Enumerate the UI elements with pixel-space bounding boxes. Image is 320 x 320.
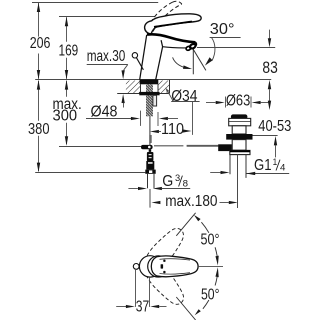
drain neck	[232, 126, 246, 134]
svg-text:50°: 50°	[201, 287, 220, 304]
svg-text:G: G	[162, 173, 173, 190]
deck cross-section hatching left of faucet	[126, 81, 140, 94]
wire: vertical line below aerator (30 deg reference)	[192, 49, 194, 74]
dimension 206	[38, 3, 40, 79]
svg-text:300: 300	[53, 107, 78, 124]
supply centerline	[149, 189, 151, 208]
supply thread lines	[147, 174, 149, 188]
svg-text:Ø63: Ø63	[226, 93, 250, 110]
wire: deck top reference line	[35, 79, 271, 81]
svg-text:max.30: max.30	[87, 48, 126, 65]
plan knob	[133, 264, 139, 270]
svg-text:380: 380	[28, 121, 50, 138]
dimension 110	[150, 130, 159, 133]
svg-text:30°: 30°	[210, 21, 235, 38]
svg-text:83: 83	[262, 59, 277, 77]
rotation arrow under spout	[173, 57, 186, 67]
fixing block right of shank	[153, 95, 157, 106]
dashed lever rotated down 50	[147, 264, 190, 309]
drain body	[232, 140, 246, 151]
base plate	[140, 79, 159, 84]
body left edge	[140, 35, 147, 80]
wire: deck hole right wall	[157, 84, 159, 93]
pop-up knob	[132, 53, 137, 58]
aerator rings	[195, 42, 196, 45]
dimension max.300	[66, 81, 68, 145]
dashed lever raised position	[148, 1, 182, 31]
wire: deck hole left wall	[140, 84, 142, 93]
tailpipe centerline down to max.180	[237, 155, 239, 208]
wire: deck section right edge	[169, 80, 171, 94]
wire: top reference line (spout max height 206)	[32, 2, 158, 4]
pop-up rod horizontal	[154, 145, 183, 147]
drain bottom cap	[230, 150, 250, 154]
cartridge cap circle	[148, 256, 169, 277]
rod-to-drain joint	[141, 145, 153, 149]
svg-text:Ø48: Ø48	[91, 104, 118, 121]
wire: reference line 169 (lever height)	[59, 16, 155, 18]
spout underside	[163, 47, 187, 48]
dimension 83	[269, 30, 271, 39]
flexible hose	[147, 152, 154, 161]
lever (solid)	[145, 14, 202, 34]
pop-up rod upper	[137, 58, 144, 70]
50 degree arcs lower	[203, 300, 209, 309]
label G3/8 with dimension arrows	[128, 188, 138, 190]
svg-text:Ø34: Ø34	[171, 88, 198, 105]
dimension 169	[66, 17, 68, 79]
dimension Ø63	[206, 102, 216, 104]
escutcheon circle	[139, 256, 160, 277]
svg-text:110: 110	[161, 121, 184, 138]
dimension max.180	[151, 201, 160, 204]
dimension max.30 lower arrow (under deck)	[122, 94, 125, 103]
svg-text:37: 37	[136, 299, 149, 316]
wire: lower reference line at 380	[35, 172, 145, 174]
body top heavy edge	[147, 34, 195, 42]
wire: hose level reference line (max.300)	[59, 146, 141, 148]
wire: slanted 30 degree stream line	[193, 49, 206, 71]
lever plan solid	[151, 256, 198, 277]
50 degree arcs upper	[201, 222, 209, 233]
connection nut	[145, 170, 155, 174]
dimension 380	[38, 81, 40, 172]
pull rod lower section	[149, 116, 151, 145]
svg-text:169: 169	[59, 43, 79, 60]
svg-text:3: 3	[175, 173, 180, 184]
body right edge	[156, 40, 163, 79]
wire: deck bottom line	[117, 93, 169, 95]
plan centerline	[198, 265, 223, 267]
mounting washer	[139, 92, 159, 95]
50 degree rays	[176, 213, 195, 236]
hose hex fitting	[146, 161, 154, 170]
svg-text:4: 4	[280, 162, 286, 173]
deck cross-section hatching right of faucet	[158, 81, 169, 94]
svg-text:40-53: 40-53	[258, 118, 291, 135]
drain plug cap	[231, 114, 248, 119]
svg-text:max.180: max.180	[165, 193, 217, 210]
rod tee fitting	[218, 144, 232, 151]
drain flange cup	[229, 118, 251, 125]
dimension line to drain left edge	[210, 172, 220, 174]
wire: spout tip extension line (110 dimension)	[192, 102, 194, 135]
svg-text:206: 206	[30, 35, 51, 52]
svg-text:50°: 50°	[201, 232, 220, 249]
drain locknut	[226, 134, 252, 140]
threaded shank	[146, 84, 153, 116]
dashed lever rotated up 50	[146, 223, 189, 268]
svg-text:8: 8	[183, 178, 188, 189]
tailpipe walls	[229, 155, 231, 175]
svg-text:G1: G1	[254, 157, 272, 174]
svg-text:1: 1	[273, 157, 278, 167]
dimension 37	[135, 270, 137, 307]
